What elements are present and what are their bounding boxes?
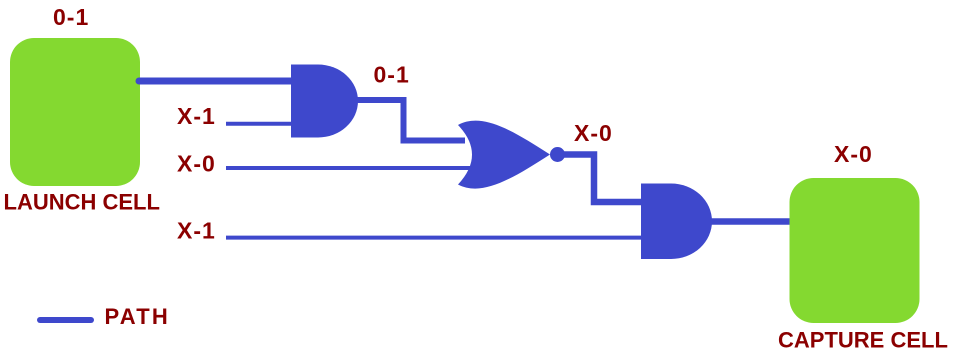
svg-text:X-0: X-0 — [177, 151, 216, 177]
capture cell — [790, 178, 920, 323]
svg-text:X-0: X-0 — [834, 141, 873, 167]
NOR bubble — [550, 147, 565, 162]
AND gate U3 — [641, 184, 712, 260]
wire NOR output elbow — [564, 155, 645, 203]
svg-text:X-1: X-1 — [177, 218, 216, 244]
svg-text:X-0: X-0 — [574, 120, 613, 146]
legend PATH line — [40, 317, 91, 323]
svg-text:0-1: 0-1 — [374, 62, 410, 88]
svg-text:LAUNCH CELL: LAUNCH CELL — [4, 190, 160, 215]
wire X-0 to NOR — [226, 166, 480, 170]
wire launch cell to AND1 — [139, 78, 292, 85]
wire AND1 output elbow — [357, 100, 465, 141]
svg-text:0-1: 0-1 — [53, 4, 89, 30]
wire AND2 to capture cell — [710, 218, 792, 225]
launch cell — [10, 38, 140, 186]
svg-text:CAPTURE CELL: CAPTURE CELL — [778, 328, 948, 353]
wire X-1 to AND2 — [226, 236, 645, 240]
svg-text:X-1: X-1 — [177, 103, 216, 129]
AND gate U1 — [291, 65, 358, 138]
wire X-1 to AND1 — [226, 122, 295, 126]
svg-text:PATH: PATH — [105, 304, 170, 329]
NOR gate U2 — [458, 121, 550, 189]
